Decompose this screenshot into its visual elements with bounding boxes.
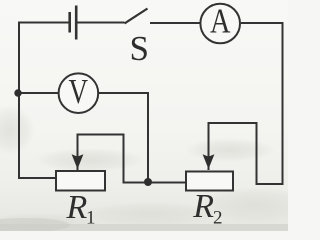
node: junction dot at left (wire to voltmeter) — [14, 89, 21, 96]
resistor R2 wiper arrowhead — [203, 154, 215, 169]
wire: junction up and left to voltmeter right side — [99, 93, 149, 182]
battery B: short plate (left) — [68, 12, 71, 33]
svg-text:S: S — [130, 29, 149, 68]
resistor R1 wiper arrowhead — [72, 154, 84, 169]
voltmeter V circle — [59, 73, 99, 113]
battery B: long plate (right) — [75, 6, 78, 40]
wire: switch contact to ammeter — [150, 22, 200, 24]
node: junction dot between R1 wiper net and R2 left terminal — [144, 178, 152, 186]
ammeter A circle — [200, 4, 240, 44]
svg-text:V: V — [69, 73, 89, 111]
svg-text:1: 1 — [86, 208, 96, 229]
svg-text:2: 2 — [213, 208, 223, 229]
wire: battery right to switch pivot — [77, 22, 125, 24]
switch S lever — [125, 9, 148, 24]
resistor R2 box — [186, 172, 233, 191]
wire: ammeter right, down right side, bottom-right to R2 wiper loop — [209, 23, 283, 184]
svg-text:A: A — [210, 2, 231, 41]
svg-text:R: R — [192, 188, 214, 225]
svg-text:R: R — [66, 189, 88, 226]
resistor R1 box — [56, 171, 105, 191]
wire: R1 wiper loop to junction and on to R2 left terminal — [78, 135, 187, 183]
wire: battery left to top-left corner, down left side, into R1 left terminal — [19, 23, 69, 179]
wire: left junction to voltmeter left side — [18, 92, 59, 94]
